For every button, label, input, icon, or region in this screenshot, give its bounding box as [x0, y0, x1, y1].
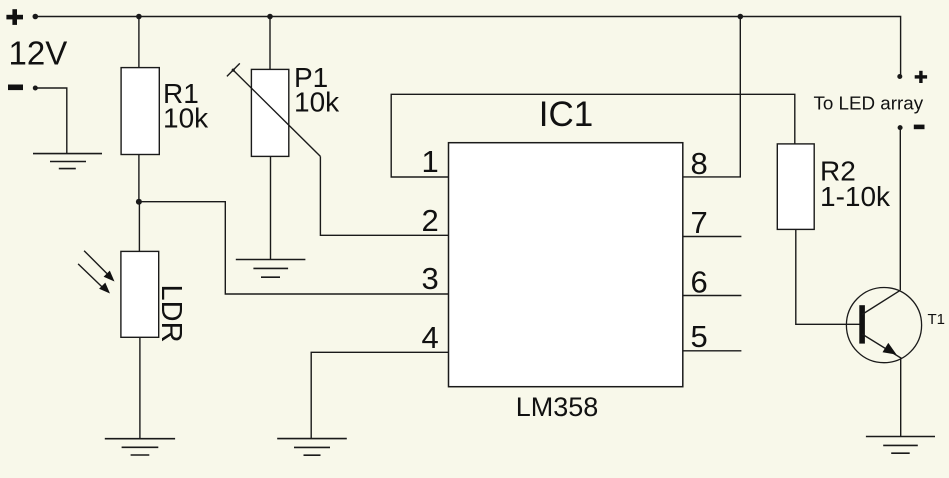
svg-text:LM358: LM358 — [516, 392, 599, 422]
wire P1 bottom lead — [270, 156, 272, 259]
T1 emitter line — [862, 334, 902, 359]
svg-text:8: 8 — [691, 146, 708, 181]
svg-text:5: 5 — [691, 319, 708, 354]
wire LDR bottom lead — [139, 337, 141, 438]
wire pin 1 loop to R2 — [391, 94, 795, 177]
svg-text:2: 2 — [422, 203, 439, 238]
svg-text:T1: T1 — [928, 311, 946, 328]
wire node A to pin 3 — [139, 202, 449, 294]
node pin8 rail junction — [738, 14, 744, 20]
potentiometer P1 — [227, 63, 321, 156]
ground (battery minus) — [33, 154, 102, 169]
node +12V rail terminal dot — [33, 14, 39, 20]
op-amp IC1 box — [449, 143, 683, 387]
wire pin 6 stub — [683, 295, 742, 297]
svg-text:1-10k: 1-10k — [820, 181, 891, 212]
node LED array plus terminal — [897, 74, 902, 79]
T1 base bar — [859, 305, 865, 343]
node P1 top junction — [267, 14, 273, 20]
battery minus symbol — [8, 85, 23, 91]
svg-text:1: 1 — [422, 144, 439, 179]
T1 body circle — [846, 288, 921, 363]
resistor R1 — [121, 68, 159, 155]
wire R1 bottom lead — [138, 155, 140, 202]
node R1 top junction — [136, 14, 142, 20]
wire emitter to ground — [900, 359, 902, 437]
svg-text:IC1: IC1 — [539, 95, 593, 134]
ground (emitter) — [866, 437, 935, 454]
wire collector to LED minus — [899, 128, 901, 291]
svg-text:To LED array: To LED array — [814, 92, 924, 113]
P1 wiper tick — [227, 63, 240, 76]
svg-text:6: 6 — [691, 264, 708, 299]
transistor T1 — [846, 288, 921, 363]
LDR light arrow 1 — [84, 251, 114, 282]
svg-text:10k: 10k — [294, 87, 340, 118]
resistor R2 — [777, 144, 814, 230]
node A junction R1/LDR — [136, 199, 142, 205]
svg-text:3: 3 — [422, 261, 439, 296]
wire pin 7 stub — [683, 236, 742, 238]
ground (LDR) — [105, 439, 175, 455]
wire pin 4 to ground — [311, 352, 450, 438]
T1 emitter arrow head — [883, 343, 897, 355]
svg-text:10k: 10k — [163, 103, 209, 134]
wire R1 top lead — [138, 17, 140, 68]
wire P1 top lead — [269, 17, 271, 70]
ground (IC pin 4) — [277, 439, 347, 456]
svg-text:7: 7 — [691, 205, 708, 240]
P1 wiper diagonal — [233, 70, 320, 156]
wire +12V top rail — [35, 17, 900, 77]
wire pin 8 supply — [683, 17, 741, 177]
battery plus symbol — [6, 9, 23, 25]
LDR light arrow 2 — [78, 264, 110, 294]
wire minus terminal to ground — [35, 88, 67, 154]
ground (P1) — [236, 260, 306, 278]
LED array plus symbol — [915, 71, 927, 83]
LDR — [121, 251, 159, 337]
LED array minus symbol — [914, 125, 925, 130]
svg-text:12V: 12V — [9, 35, 68, 72]
node minus terminal dot — [33, 86, 38, 91]
T1 collector line — [862, 290, 900, 314]
wire R2 bottom to base — [796, 229, 860, 324]
wire LDR top lead — [138, 202, 140, 252]
svg-text:LDR: LDR — [155, 285, 187, 343]
svg-text:4: 4 — [422, 320, 439, 355]
wire pin 5 stub — [683, 350, 742, 352]
wire P1 wiper to pin 2 — [320, 156, 448, 235]
node LED array minus terminal — [898, 125, 903, 130]
